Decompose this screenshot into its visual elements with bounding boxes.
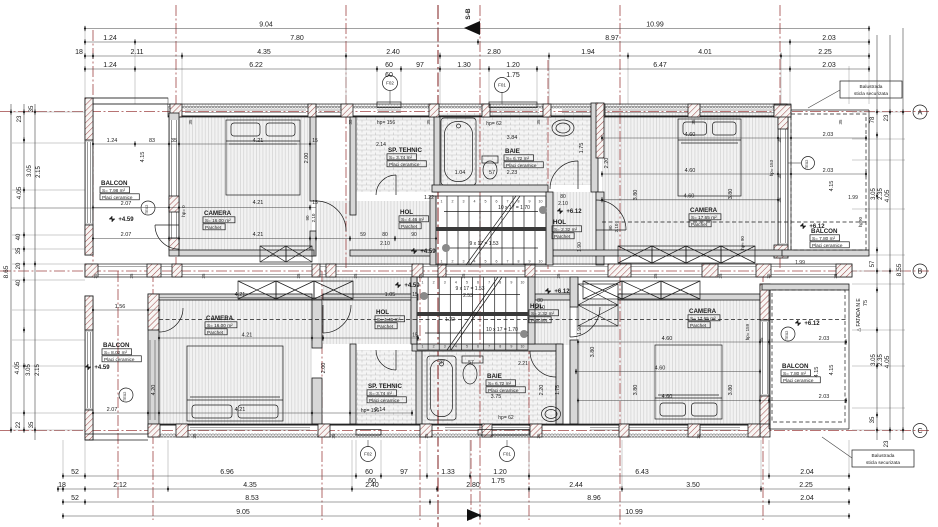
svg-text:1.75: 1.75 (579, 143, 585, 154)
exterior wall bottom band (148, 424, 760, 437)
balcony/camera wall top-left (169, 113, 179, 256)
door baie bottom (530, 351, 556, 377)
room BALCON bottom-left floor (93, 296, 148, 434)
svg-text:+4.59: +4.59 (420, 249, 436, 255)
svg-text:S= 17.65 m²: S= 17.65 m² (690, 316, 716, 321)
room SP.TEHNIC top floor tiles (356, 117, 434, 192)
inner dim row top-left y238 (93, 238, 436, 240)
svg-text:6.96: 6.96 (220, 469, 234, 476)
svg-text:1: 1 (441, 260, 443, 264)
svg-text:35: 35 (29, 105, 35, 112)
svg-text:80: 80 (382, 232, 388, 238)
svg-text:57: 57 (489, 170, 495, 176)
middle party floor band (85, 264, 852, 277)
wall sp.tehnic/baie bottom (416, 350, 422, 425)
extension lines left (12, 111, 85, 113)
wall right camera/balcony top (778, 112, 788, 255)
svg-text:2.80: 2.80 (466, 482, 480, 489)
room HOL bottom-right floor (535, 277, 570, 345)
dimension row 2.12 4.35 2.40 2.80 2.44 3.50 2.25 bottom (57, 482, 850, 492)
svg-text:35: 35 (188, 119, 193, 125)
partition camera/hol bottom-left (312, 300, 322, 348)
svg-text:5: 5 (485, 200, 487, 204)
svg-text:1.99: 1.99 (848, 195, 858, 201)
svg-text:35: 35 (691, 119, 696, 125)
svg-text:6: 6 (496, 200, 498, 204)
svg-text:△ FATADA N E: △ FATADA N E (856, 298, 862, 332)
inner dim row top-left y207 (93, 207, 316, 209)
wardrobe top-left (260, 246, 286, 262)
svg-text:35: 35 (192, 433, 197, 439)
svg-text:2.03: 2.03 (823, 168, 834, 174)
svg-text:20: 20 (16, 262, 22, 269)
svg-text:35: 35 (461, 273, 466, 279)
door camera top-left (316, 201, 346, 231)
left exterior wall top (85, 98, 93, 255)
svg-text:2.03: 2.03 (822, 62, 836, 69)
svg-text:F01: F01 (503, 452, 511, 457)
label HOL top-right (552, 219, 582, 239)
svg-text:hp= 153: hp= 153 (769, 159, 774, 176)
svg-text:80: 80 (560, 194, 566, 200)
svg-text:1: 1 (422, 345, 424, 349)
svg-text:Parchet: Parchet (205, 225, 222, 230)
wall sp.tehnic/baie top (434, 117, 440, 192)
wall baie bottom top unit (432, 185, 548, 192)
svg-text:35: 35 (201, 273, 206, 279)
svg-text:2.11: 2.11 (130, 49, 143, 56)
svg-text:2.21: 2.21 (518, 361, 528, 367)
svg-text:23: 23 (884, 114, 890, 121)
camera top wall bottom-right unit (618, 294, 760, 300)
svg-text:4.05: 4.05 (16, 186, 23, 199)
svg-text:8.65: 8.65 (3, 265, 10, 278)
svg-text:HOL: HOL (376, 309, 389, 316)
svg-text:1: 1 (422, 281, 424, 285)
svg-text:4.15: 4.15 (829, 365, 835, 376)
svg-text:Placi ceramice: Placi ceramice (102, 195, 133, 200)
svg-text:Parchet: Parchet (401, 224, 418, 229)
svg-text:40: 40 (16, 279, 22, 286)
svg-text:1.33: 1.33 (441, 469, 455, 476)
svg-text:3: 3 (444, 345, 446, 349)
svg-text:10: 10 (520, 345, 524, 349)
svg-text:2.20: 2.20 (604, 158, 610, 169)
balcony top-right solid edges (791, 109, 869, 111)
svg-text:4.35: 4.35 (257, 49, 271, 56)
svg-text:3: 3 (444, 281, 446, 285)
svg-text:1.05: 1.05 (385, 292, 396, 298)
axis vertical x346 top (345, 5, 347, 271)
balustrada label bottom-right (852, 450, 914, 467)
wall hol/camera right bottom (570, 277, 578, 307)
svg-text:4: 4 (474, 200, 476, 204)
svg-text:35: 35 (348, 119, 353, 125)
svg-text:4.60: 4.60 (685, 168, 696, 174)
svg-text:S= 6.72 m²: S= 6.72 m² (506, 156, 529, 161)
svg-text:S= 7.98 m²: S= 7.98 m² (102, 188, 125, 193)
window circle F02 bottom (367, 440, 369, 447)
svg-text:7: 7 (488, 345, 490, 349)
svg-text:90: 90 (305, 215, 310, 221)
svg-text:S= 17.65 m²: S= 17.65 m² (691, 215, 717, 220)
svg-text:35: 35 (93, 273, 98, 279)
svg-text:S= 16.00 m²: S= 16.00 m² (205, 218, 231, 223)
svg-text:1.22: 1.22 (424, 195, 434, 201)
svg-text:3.84: 3.84 (507, 135, 518, 141)
svg-text:3: 3 (463, 200, 465, 204)
dimension row 1.24 7.80 / 8.97 2.03 top (84, 35, 870, 45)
svg-text:F02: F02 (364, 452, 372, 457)
svg-text:8: 8 (499, 281, 501, 285)
svg-text:57: 57 (468, 360, 474, 366)
svg-text:sticla securizata: sticla securizata (866, 460, 900, 466)
svg-text:4: 4 (455, 281, 457, 285)
stairwell side walls top (430, 196, 436, 265)
svg-text:35: 35 (129, 273, 134, 279)
svg-text:35: 35 (777, 173, 782, 179)
svg-text:5: 5 (485, 260, 487, 264)
svg-text:9: 9 (510, 281, 512, 285)
svg-text:2.40: 2.40 (365, 482, 379, 489)
svg-text:4.60: 4.60 (685, 132, 696, 138)
balcony bottom-right dashed outline (772, 290, 845, 422)
svg-text:hp= 0: hp= 0 (181, 205, 186, 217)
svg-text:Parchet: Parchet (691, 222, 708, 227)
svg-text:23: 23 (17, 115, 23, 122)
svg-text:1.20: 1.20 (506, 62, 520, 69)
axis vertical x322 bottom (321, 271, 323, 520)
svg-text:9: 9 (529, 260, 531, 264)
svg-text:BAIE: BAIE (487, 373, 502, 380)
svg-text:hp= 156: hp= 156 (377, 120, 395, 126)
svg-text:Placi ceramice: Placi ceramice (488, 388, 519, 393)
svg-text:TE02: TE02 (784, 330, 789, 340)
svg-text:2.07: 2.07 (121, 201, 132, 207)
svg-text:1.90: 1.90 (577, 325, 583, 335)
room SP.TEHNIC bottom floor tiles (356, 350, 416, 424)
svg-text:sticla securizata: sticla securizata (854, 91, 888, 97)
svg-text:C: C (917, 428, 922, 435)
svg-text:2.03: 2.03 (823, 132, 834, 138)
svg-text:78: 78 (870, 116, 876, 123)
room HOL top-left floor (318, 201, 436, 265)
svg-text:35: 35 (766, 273, 771, 279)
svg-text:3.75: 3.75 (491, 394, 502, 400)
svg-text:35: 35 (653, 273, 658, 279)
wall hol/camera right top (596, 103, 604, 158)
label SP.TEHNIC bottom (367, 383, 406, 403)
svg-text:2.20: 2.20 (539, 385, 545, 396)
svg-text:1.56: 1.56 (115, 304, 126, 310)
svg-text:+6.12: +6.12 (554, 289, 570, 295)
svg-text:10: 10 (520, 281, 524, 285)
svg-text:6: 6 (477, 281, 479, 285)
svg-text:35: 35 (718, 273, 723, 279)
window circle F01 bottom (506, 440, 508, 447)
bed bottom-left camera (187, 346, 283, 421)
svg-text:+6.12: +6.12 (809, 224, 825, 230)
svg-text:1.30: 1.30 (457, 62, 471, 69)
right dimension column lines (876, 35, 878, 440)
svg-text:4.21: 4.21 (253, 200, 264, 206)
balcony bottom wall top-right (782, 250, 869, 256)
bathtub top baie (441, 118, 476, 185)
hatched piers bottom wall (148, 424, 160, 437)
svg-text:23: 23 (884, 440, 890, 447)
wardrobe bottom-right column (578, 284, 618, 305)
svg-text:2: 2 (433, 281, 435, 285)
bed top-left camera (226, 120, 300, 195)
svg-text:S= 7.80 m²: S= 7.80 m² (812, 236, 835, 241)
level +4.59 top hol (411, 248, 436, 255)
inner dim row bottom-right y372 (576, 371, 760, 373)
wall baie right top (591, 103, 598, 192)
svg-text:8.55: 8.55 (896, 263, 903, 276)
svg-text:1.75: 1.75 (555, 385, 561, 395)
inner dim row bottom-left y338 (159, 337, 418, 339)
svg-text:35: 35 (838, 119, 843, 125)
thermo circle TE02 bottom-left (119, 388, 133, 402)
dimension row 1.24 6.22 60 97 1.30 1.20 6.47 2.03 top (84, 62, 870, 72)
camera bottom wall top-left unit (179, 250, 314, 256)
label BALCON bottom-right (781, 363, 820, 383)
level +6.12 bottom hol right (545, 288, 570, 295)
svg-text:8.97: 8.97 (605, 35, 619, 42)
washbasin bottom baie (542, 407, 561, 422)
svg-text:2.44: 2.44 (569, 482, 583, 489)
svg-text:Placi ceramice: Placi ceramice (389, 162, 420, 167)
svg-text:Placi ceramice: Placi ceramice (506, 163, 537, 168)
svg-text:10 x 17 = 1.70: 10 x 17 = 1.70 (486, 327, 518, 333)
svg-text:2.03: 2.03 (822, 35, 836, 42)
door baie top (550, 161, 578, 189)
svg-text:18: 18 (58, 482, 66, 489)
axis vertical x93 top (92, 30, 94, 271)
dimension row 52 8.53 8.96 2.04 bottom (62, 495, 850, 505)
svg-text:97: 97 (400, 469, 408, 476)
svg-text:4.05: 4.05 (14, 361, 21, 374)
svg-text:35: 35 (536, 119, 541, 125)
svg-text:15: 15 (412, 333, 418, 339)
svg-text:1.04: 1.04 (455, 170, 466, 176)
svg-text:35: 35 (777, 137, 782, 143)
axis circle C (913, 424, 927, 438)
svg-text:Balustrada: Balustrada (872, 453, 895, 459)
svg-text:6.47: 6.47 (653, 62, 667, 69)
svg-text:2.10: 2.10 (535, 305, 545, 311)
svg-text:HOL: HOL (553, 219, 566, 226)
svg-text:5: 5 (466, 281, 468, 285)
room HOL top-right floor (546, 192, 596, 265)
svg-text:9: 9 (510, 345, 512, 349)
svg-text:10.99: 10.99 (646, 22, 664, 29)
beam dashed line top-right (602, 221, 866, 223)
svg-text:3.80: 3.80 (728, 189, 734, 200)
room CAMERA bottom-right floor parquet (576, 300, 760, 424)
svg-text:hp= 62: hp= 62 (486, 121, 502, 127)
balustrada label top-right (840, 81, 902, 98)
axis line B horizontal (0, 270, 930, 272)
svg-text:4.01: 4.01 (698, 49, 712, 56)
bed bottom-right camera (655, 345, 722, 419)
svg-text:60: 60 (365, 469, 373, 476)
axis vertical x620 full (619, 5, 621, 527)
svg-text:hp90: hp90 (858, 216, 863, 227)
svg-text:80: 80 (537, 298, 543, 304)
inner dim row bottom-right y342 (578, 341, 846, 343)
axis vertical x529 bottom (528, 271, 530, 520)
window sill F02 bottom (356, 430, 381, 436)
svg-text:Placi ceramice: Placi ceramice (369, 398, 400, 403)
svg-text:1: 1 (441, 200, 443, 204)
svg-text:35: 35 (833, 273, 838, 279)
svg-text:3.50: 3.50 (686, 482, 700, 489)
svg-text:57: 57 (870, 260, 876, 267)
svg-text:S= 2.32 m²: S= 2.32 m² (554, 227, 577, 232)
svg-text:1.22: 1.22 (445, 317, 455, 323)
svg-text:9: 9 (529, 200, 531, 204)
windows in top wall (185, 109, 306, 111)
svg-text:2.15: 2.15 (36, 166, 42, 178)
label CAMERA top-left (203, 210, 235, 230)
svg-text:2.12: 2.12 (113, 482, 127, 489)
svg-text:5: 5 (466, 345, 468, 349)
svg-text:4.35: 4.35 (243, 482, 257, 489)
svg-text:4.21: 4.21 (235, 407, 246, 413)
inner dim row bottom-right y400 (578, 400, 846, 402)
landing post dots bottom stairs (420, 292, 428, 300)
svg-text:F01: F01 (498, 83, 506, 88)
svg-text:hp= 159: hp= 159 (745, 323, 750, 340)
window circle F02 top (389, 91, 391, 104)
svg-text:9 x 17 = 1.53: 9 x 17 = 1.53 (469, 241, 498, 247)
axis vertical x780 top (779, 5, 781, 271)
svg-text:2.15: 2.15 (35, 364, 41, 376)
svg-text:8.96: 8.96 (587, 495, 601, 502)
svg-text:90: 90 (608, 225, 613, 231)
svg-text:BAIE: BAIE (505, 148, 520, 155)
balcony top-right dashed outline (791, 114, 866, 250)
label HOL bottom-left (375, 309, 405, 329)
svg-text:3: 3 (463, 260, 465, 264)
inner dim row bottom-left y413 (93, 412, 412, 414)
svg-text:S= 16.00 m²: S= 16.00 m² (207, 323, 233, 328)
svg-text:4.21: 4.21 (235, 292, 246, 298)
svg-text:1.75: 1.75 (491, 478, 505, 485)
svg-text:+4.59: +4.59 (118, 217, 134, 223)
axis circle B (913, 264, 927, 278)
svg-text:35: 35 (759, 337, 764, 343)
svg-text:Parchet: Parchet (690, 323, 707, 328)
svg-text:3.05: 3.05 (871, 188, 877, 200)
svg-text:Placi ceramice: Placi ceramice (783, 378, 814, 383)
middle band hatch piers (85, 264, 98, 277)
svg-text:2: 2 (452, 260, 454, 264)
left dimension column lines (10, 104, 12, 430)
stairwell side walls bottom (411, 277, 417, 344)
svg-text:2.00: 2.00 (304, 153, 310, 164)
svg-text:15: 15 (312, 138, 318, 144)
axis vertical x118 bottom (117, 271, 119, 500)
level +4.59 top-left balcony (109, 216, 134, 223)
level +6.12 top hol right (557, 208, 582, 215)
svg-text:Placi ceramice: Placi ceramice (812, 243, 843, 248)
svg-text:35: 35 (696, 433, 701, 439)
svg-text:6.43: 6.43 (635, 469, 649, 476)
svg-text:TE02: TE02 (122, 391, 127, 401)
svg-text:10.99: 10.99 (625, 509, 643, 516)
svg-text:4.15: 4.15 (814, 367, 820, 378)
svg-text:35: 35 (556, 273, 561, 279)
section marker S-B top (464, 21, 480, 35)
svg-text:1.24: 1.24 (103, 62, 117, 69)
svg-text:7: 7 (488, 281, 490, 285)
svg-text:40: 40 (16, 233, 22, 240)
svg-text:15: 15 (412, 292, 418, 298)
axis circle A (913, 105, 927, 119)
svg-text:S-B: S-B (465, 8, 472, 20)
room HOL bottom-left floor (323, 277, 418, 344)
svg-text:2.10: 2.10 (380, 241, 390, 247)
svg-text:8.53: 8.53 (245, 495, 259, 502)
thermo circle TE02 top-left (141, 201, 155, 215)
room CAMERA top-left floor parquet (179, 117, 312, 250)
svg-text:7: 7 (507, 260, 509, 264)
svg-text:52: 52 (71, 495, 79, 502)
balcony parapet top-left (85, 98, 168, 104)
hatched piers top wall (170, 104, 182, 117)
label BAIE bottom (486, 373, 525, 393)
svg-text:15: 15 (312, 200, 318, 206)
svg-text:9.05: 9.05 (236, 509, 250, 516)
inner dim row top-right y138 (602, 137, 866, 139)
dimension row 2.11 4.35 2.40 2.80 1.94 4.01 2.25 top (75, 49, 870, 59)
svg-text:2.10: 2.10 (311, 213, 316, 222)
label BALCON top-right (810, 228, 849, 248)
svg-text:4: 4 (474, 260, 476, 264)
svg-text:S= 4.46 m²: S= 4.46 m² (401, 217, 424, 222)
svg-text:2.40: 2.40 (386, 49, 400, 56)
svg-text:4.60: 4.60 (655, 366, 666, 372)
svg-text:2.23: 2.23 (507, 170, 518, 176)
svg-text:35: 35 (870, 416, 876, 423)
svg-text:6: 6 (496, 260, 498, 264)
svg-text:8: 8 (518, 260, 520, 264)
svg-text:1.24: 1.24 (103, 35, 117, 42)
beam dashed line bottom (159, 319, 846, 321)
svg-text:4.60: 4.60 (662, 394, 673, 400)
svg-text:4.05: 4.05 (884, 355, 891, 368)
label BAIE top (504, 148, 543, 168)
wall right camera/balcony bottom (760, 284, 770, 430)
door sp.tehnic top (376, 175, 396, 195)
svg-text:1.75: 1.75 (506, 72, 520, 79)
door balcony top-left wall (155, 225, 179, 249)
svg-text:3.05: 3.05 (26, 364, 32, 376)
thermo circle TE02 bottom-right (781, 327, 795, 341)
camera bottom wall top-right unit (553, 250, 788, 256)
inner dim row bottom-left y297 (159, 297, 418, 299)
svg-text:60: 60 (385, 62, 393, 69)
svg-text:7.80: 7.80 (290, 35, 304, 42)
extension lines top (84, 30, 86, 104)
svg-text:8: 8 (499, 345, 501, 349)
svg-text:2.80: 2.80 (487, 49, 501, 56)
label CAMERA top-right (689, 207, 721, 227)
dimension row 9.05 10.99 bottom (62, 509, 850, 519)
svg-text:22: 22 (16, 421, 22, 428)
